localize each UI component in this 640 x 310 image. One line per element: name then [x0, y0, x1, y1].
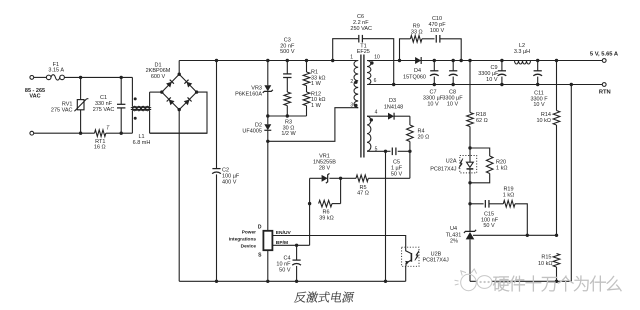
svg-text:10 V: 10 V — [427, 101, 439, 107]
label D4 — [403, 68, 426, 80]
wire pin5 — [367, 150, 387, 153]
label L1 — [133, 134, 151, 146]
wire BP/M — [272, 244, 309, 246]
node sec C9 — [500, 59, 503, 62]
svg-text:VAC: VAC — [29, 94, 40, 100]
resistor R5 — [341, 175, 410, 182]
wire source to rail — [266, 250, 269, 283]
svg-text:15TQ060: 15TQ060 — [403, 74, 426, 80]
svg-text:6: 6 — [374, 78, 377, 84]
label U2A — [430, 158, 457, 172]
svg-text:P6KE160A: P6KE160A — [235, 91, 262, 97]
output terminal 5V — [602, 59, 606, 63]
svg-text:Power: Power — [242, 229, 256, 235]
L1 phasing dot bottom — [134, 117, 137, 120]
wire cathode — [468, 183, 471, 232]
svg-text:275 VAC: 275 VAC — [51, 107, 73, 113]
resistor R14 — [553, 61, 560, 236]
label pin 1 — [350, 54, 353, 60]
node comp to ref — [526, 234, 529, 237]
svg-text:R15: R15 — [541, 254, 551, 260]
label pin 4 — [370, 110, 378, 122]
label C8 — [442, 90, 463, 108]
wire primary + rail — [179, 60, 358, 62]
label Power Integrations Device — [229, 229, 257, 249]
svg-text:10: 10 — [374, 54, 380, 60]
svg-text:33 Ω: 33 Ω — [411, 30, 423, 36]
node rail C3 — [286, 59, 289, 62]
svg-text:10 V: 10 V — [533, 102, 545, 108]
bridge rectifier D1 diamond — [162, 74, 197, 109]
wire R5 to bias node — [409, 151, 411, 178]
capacitor C10 — [436, 35, 461, 61]
svg-text:U4: U4 — [450, 226, 457, 232]
label R20 — [496, 159, 507, 171]
capacitor C1 — [117, 77, 125, 133]
label F1 — [48, 62, 64, 74]
wire RTN riser — [570, 85, 572, 282]
svg-text:1/2 W: 1/2 W — [281, 131, 296, 137]
wire C1 to L1 bottom — [121, 132, 132, 134]
resistor R6 — [308, 178, 341, 207]
input terminal bottom (neutral) — [30, 131, 95, 135]
wire ref to divider — [527, 234, 558, 237]
label R4 — [418, 128, 430, 140]
svg-text:1 kΩ: 1 kΩ — [496, 165, 507, 171]
node rail C2 — [215, 59, 218, 62]
svg-text:600 V: 600 V — [151, 74, 166, 80]
label RT1 — [94, 139, 106, 151]
label T1 — [357, 43, 370, 55]
resistor R12 — [303, 86, 310, 116]
label pin 6 — [374, 78, 377, 84]
label BP/M — [276, 240, 288, 246]
wire bridge AC right — [150, 92, 207, 133]
svg-text:3.3 µH: 3.3 µH — [514, 49, 530, 55]
wire drain net — [268, 108, 358, 142]
node sec R18 — [468, 59, 471, 62]
svg-text:3.15 A: 3.15 A — [48, 68, 64, 74]
diode D3 — [388, 113, 410, 120]
capacitor C5 — [386, 148, 410, 156]
svg-text:6.8 mH: 6.8 mH — [133, 140, 151, 146]
svg-text:1 W: 1 W — [311, 81, 322, 87]
capacitor C7 — [430, 61, 439, 87]
inductor L2 — [515, 61, 531, 65]
resistor R1 — [303, 61, 310, 86]
svg-text:16 Ω: 16 Ω — [94, 144, 106, 150]
node drain junction — [266, 140, 269, 143]
fuse F1 — [46, 75, 64, 80]
node AC bottom at C1 — [120, 132, 123, 135]
svg-text:D3: D3 — [389, 98, 396, 104]
bridge corner dots — [160, 73, 198, 112]
title flyback power supply — [294, 292, 355, 303]
svg-text:EN/UV: EN/UV — [276, 230, 292, 236]
wire secondary bus — [367, 60, 602, 62]
label C10 — [428, 16, 446, 34]
svg-text:10 V: 10 V — [447, 101, 459, 107]
svg-text:2: 2 — [350, 79, 353, 85]
svg-text:5 V, 5.65 A: 5 V, 5.65 A — [590, 52, 619, 58]
node U2A top — [468, 146, 471, 149]
Power Integrations device U1 — [263, 231, 272, 250]
svg-text:PC817X4J: PC817X4J — [430, 166, 457, 172]
capacitor C11 — [533, 61, 542, 85]
label C7 — [423, 90, 444, 108]
label C4 — [276, 255, 291, 273]
capacitor C3 — [283, 61, 291, 93]
optocoupler U2B — [402, 247, 419, 266]
zener VR3 — [263, 61, 273, 117]
svg-text:1: 1 — [350, 54, 353, 60]
wire BP/M riser — [309, 178, 311, 245]
capacitor C2 — [212, 61, 221, 282]
wire pin4 — [367, 115, 388, 117]
label R12 — [311, 91, 326, 109]
svg-text:4: 4 — [375, 110, 378, 116]
label U2B — [422, 252, 449, 264]
wire bridge - to ground rail — [178, 110, 180, 282]
resistor R18 — [467, 61, 474, 149]
label C6 — [350, 14, 372, 32]
label S pin — [258, 253, 262, 259]
L1 phasing dot top — [134, 97, 137, 100]
svg-text:250 VAC: 250 VAC — [350, 26, 372, 32]
node RTN right riser — [570, 83, 573, 86]
diode D2 — [264, 116, 271, 141]
input terminal top (line) — [30, 76, 47, 80]
svg-text:50 V: 50 V — [483, 223, 495, 229]
svg-text:Device: Device — [241, 243, 257, 249]
label D1 — [146, 62, 171, 80]
label C15 — [481, 211, 499, 229]
svg-text:50 V: 50 V — [391, 171, 403, 177]
T1 bias winding — [367, 116, 371, 151]
label 85-265 VAC — [25, 88, 45, 100]
node rail bottom C2 — [215, 280, 218, 283]
watermark logo — [455, 269, 492, 291]
label VR1 — [313, 153, 336, 171]
diode D4 — [415, 57, 421, 64]
node sec snubber left — [398, 59, 401, 62]
node AC top at RV1 — [79, 76, 82, 79]
label 5V output — [590, 52, 619, 58]
optocoupler U2A — [459, 148, 477, 183]
node sec snubber right — [460, 59, 463, 62]
node sec C8 — [452, 59, 455, 62]
label C5 — [391, 159, 403, 177]
label C11 — [530, 90, 548, 108]
svg-text:3: 3 — [350, 103, 353, 109]
bridge diode bottom-left — [167, 97, 175, 105]
varistor RV1 — [74, 77, 88, 133]
output terminal RTN — [602, 83, 606, 87]
svg-text:10 kΩ: 10 kΩ — [536, 118, 551, 124]
svg-text:275 VAC: 275 VAC — [93, 107, 115, 113]
capacitor C15 — [470, 200, 503, 208]
capacitor C8 — [449, 61, 458, 87]
label R14 — [536, 112, 551, 124]
T1 primary winding — [354, 61, 358, 108]
resistor R4 — [407, 116, 414, 153]
wire bias ground — [384, 151, 387, 283]
svg-text:10 kΩ: 10 kΩ — [538, 261, 553, 267]
node rail C6 — [331, 59, 334, 62]
label EN/UV — [276, 230, 292, 236]
svg-text:47 Ω: 47 Ω — [357, 191, 369, 197]
svg-text:1 W: 1 W — [311, 103, 322, 109]
bridge diode bottom-right — [184, 97, 192, 105]
label R1 — [311, 70, 326, 88]
resistor R20 — [470, 148, 493, 183]
wire primary ground rail — [179, 280, 406, 282]
svg-text:1 kΩ: 1 kΩ — [503, 192, 514, 198]
capacitor C6 — [333, 35, 394, 85]
svg-text:400 V: 400 V — [222, 179, 237, 185]
label C3 — [280, 38, 295, 56]
label R19 — [503, 186, 514, 198]
svg-text:28 V: 28 V — [319, 165, 331, 171]
svg-text:39 kΩ: 39 kΩ — [319, 215, 334, 221]
node sec C7 — [433, 59, 436, 62]
watermark text — [493, 276, 621, 291]
shunt regulator U4 TL431 — [464, 230, 476, 281]
node C6 RTN — [392, 83, 395, 86]
node AC bottom at RV1 — [79, 132, 82, 135]
node AC top at C1 — [120, 76, 123, 79]
bridge diode top-right — [184, 80, 192, 88]
svg-text:D: D — [258, 225, 262, 231]
svg-text:BP/M: BP/M — [276, 240, 288, 246]
label pin 3 — [350, 103, 357, 109]
resistor R3 — [284, 92, 291, 116]
label U4 — [446, 226, 462, 245]
wire secondary ground rail — [470, 280, 571, 282]
label D3 — [384, 98, 403, 110]
transformer T1 core — [361, 55, 364, 158]
label R9 — [411, 24, 423, 36]
bridge diode top-left — [166, 80, 174, 88]
wire RTN — [367, 84, 602, 86]
thermistor RT1 — [95, 130, 122, 137]
label D pin — [258, 225, 262, 231]
wire U2B emitter to rail — [405, 266, 407, 281]
label L2 — [514, 43, 530, 55]
resistor R19 — [503, 201, 527, 236]
label C2 — [222, 167, 240, 185]
wire TL431 ref — [473, 234, 527, 236]
svg-text:20 Ω: 20 Ω — [418, 134, 430, 140]
zener VR1 — [310, 173, 343, 183]
svg-text:2%: 2% — [450, 239, 458, 245]
wire bridge + to bus — [178, 61, 180, 75]
svg-text:U2A: U2A — [446, 158, 457, 164]
svg-text:10 V: 10 V — [486, 77, 498, 83]
svg-text:EF25: EF25 — [357, 49, 370, 55]
label RTN — [599, 89, 611, 95]
node RTN C11 — [536, 83, 539, 86]
wire fuse to RV1/C1 — [64, 76, 132, 78]
label R5 — [357, 185, 369, 197]
svg-text:100 V: 100 V — [430, 28, 445, 34]
svg-text:UF4005: UF4005 — [242, 129, 262, 135]
svg-text:62 Ω: 62 Ω — [476, 118, 488, 124]
node rail VR3 — [266, 59, 269, 62]
svg-text:RTN: RTN — [599, 89, 611, 95]
label pin 10 — [370, 54, 380, 64]
svg-text:Integrations: Integrations — [229, 236, 257, 242]
inductor L1 common-mode choke — [131, 77, 207, 133]
node RTN C9 — [500, 83, 503, 86]
label VR3 — [235, 85, 262, 97]
svg-text:500 V: 500 V — [280, 49, 295, 55]
label C9 — [478, 65, 499, 83]
svg-text:1N4148: 1N4148 — [384, 104, 403, 110]
label RV1 — [51, 101, 73, 113]
node BP/M C4 — [295, 244, 298, 247]
resistor R15 — [553, 254, 560, 283]
label T mark — [106, 126, 110, 132]
wire EN/UV — [272, 236, 405, 248]
svg-text:D4: D4 — [414, 68, 421, 74]
label D2 — [242, 123, 262, 135]
label R18 — [476, 112, 488, 124]
capacitor C9 — [498, 61, 507, 85]
label R6 — [319, 209, 334, 221]
resistor R9 — [400, 36, 435, 61]
node sec C11 — [536, 59, 539, 62]
label C1 — [93, 95, 115, 113]
svg-text:PC817X4J: PC817X4J — [422, 257, 449, 263]
svg-text:TL431: TL431 — [446, 233, 462, 239]
wire clamp junction — [266, 114, 306, 117]
label pin 5 — [375, 147, 378, 153]
label R3 — [281, 120, 296, 138]
label pin 2 — [350, 79, 357, 85]
node sec R14 — [555, 59, 558, 62]
T1 secondary winding — [367, 61, 371, 85]
svg-text:50 V: 50 V — [279, 267, 291, 273]
label R15 — [538, 254, 553, 266]
wire drain to device — [267, 141, 269, 231]
node U2A bottom — [468, 181, 471, 184]
capacitor C4 — [292, 245, 301, 283]
node rail R1 — [305, 59, 308, 62]
